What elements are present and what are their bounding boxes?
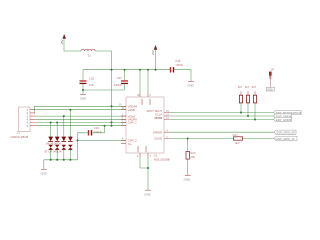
ground GND6 bbox=[184, 176, 191, 182]
svg-text:GND: GND bbox=[144, 146, 148, 152]
gnd rail under diodes bbox=[44, 159, 78, 161]
ground GND5 flag bbox=[266, 88, 274, 92]
svg-text:VDD: VDD bbox=[148, 99, 152, 105]
svg-text:4k7: 4k7 bbox=[238, 85, 243, 89]
wire rail to GND3 bbox=[43, 160, 45, 169]
svg-text:1u: 1u bbox=[88, 53, 92, 57]
junction rail/C27 bbox=[124, 69, 126, 71]
svg-text:C25: C25 bbox=[89, 76, 95, 80]
wire inductor to corner and down bbox=[95, 51, 112, 106]
capacitor C27 100nF bbox=[114, 70, 128, 90]
svg-text:GND: GND bbox=[41, 172, 47, 176]
wire p6 to IC bbox=[35, 125, 126, 127]
gnd wire from C27 bottom to C25 bottom bbox=[83, 90, 125, 94]
wire SCLK to flag2 bbox=[169, 115, 274, 117]
+5V rail wire y=69.7 bbox=[83, 69, 170, 71]
svg-text:AD51/2618B: AD51/2618B bbox=[154, 157, 170, 161]
ground GND1 bbox=[80, 95, 86, 101]
resistor R2 pull-up bbox=[238, 85, 243, 112]
wires rail to IC top pins bbox=[139, 70, 141, 93]
svg-text:uAMP: uAMP bbox=[128, 108, 136, 112]
supply +5V symbol P2 bbox=[151, 45, 157, 55]
svg-text:10k: 10k bbox=[190, 155, 195, 159]
svg-text:100nF: 100nF bbox=[114, 83, 122, 87]
svg-text:CLKIN: CLKIN bbox=[154, 137, 162, 141]
net flag ESP_GPIO5 bbox=[274, 117, 292, 121]
svg-text:R17: R17 bbox=[233, 133, 239, 137]
wire p5 to IC bbox=[35, 122, 126, 124]
wire from +5V down and right to inductor bbox=[64, 39, 81, 51]
wire CLKIN to flag5 through R17 bbox=[169, 138, 274, 140]
wire rail up to C23 left plate bbox=[78, 133, 88, 160]
svg-text:ESP_GPIO_09: ESP_GPIO_09 bbox=[277, 131, 296, 135]
capacitor C26 series 100nF bbox=[170, 59, 184, 72]
net flag ESP_GPIO_10 bbox=[274, 136, 297, 140]
svg-text:GND: GND bbox=[80, 97, 86, 101]
wire SPKEN to flag4 bbox=[169, 131, 274, 133]
svg-text:100nF: 100nF bbox=[175, 63, 183, 67]
wire PFDN to flag3 bbox=[169, 119, 274, 121]
svg-text:ESP_GPIO5: ESP_GPIO5 bbox=[276, 118, 292, 122]
wire p4 to IC bbox=[35, 118, 126, 120]
svg-text:4k7: 4k7 bbox=[235, 141, 240, 145]
IC pin stubs right bbox=[164, 113, 169, 139]
resistor R4 pull-up bbox=[252, 85, 257, 119]
IC pin stubs left bbox=[121, 106, 126, 143]
testpoint JP1 bbox=[269, 68, 274, 79]
net flag ESP_GPIO_09 bbox=[274, 130, 296, 134]
resistor R17 series bbox=[233, 133, 243, 145]
svg-text:uSMUS-P8UB: uSMUS-P8UB bbox=[10, 135, 28, 139]
svg-text:GND: GND bbox=[144, 192, 150, 196]
svg-text:C27: C27 bbox=[117, 76, 123, 80]
svg-text:VDD: VDD bbox=[140, 99, 144, 105]
svg-text:J1: J1 bbox=[17, 131, 20, 135]
wires diodes to gnd rail bbox=[51, 150, 71, 160]
svg-text:100nF: 100nF bbox=[94, 130, 102, 134]
svg-text:CAP_1: CAP_1 bbox=[128, 121, 137, 125]
TVS diode array row2 (bidirectional pairs) bbox=[44, 145, 73, 154]
ground GND3 bbox=[41, 169, 47, 175]
ground GND4 bbox=[144, 190, 151, 196]
IC bottom gnd wires bbox=[140, 158, 148, 190]
svg-text:SPKEN: SPKEN bbox=[153, 130, 162, 134]
svg-text:4k7: 4k7 bbox=[252, 85, 257, 89]
svg-text:GND: GND bbox=[267, 88, 273, 91]
svg-text:GND: GND bbox=[187, 84, 193, 88]
svg-text:GND: GND bbox=[136, 146, 140, 152]
net flag ESP_MTDO/GPIO15 bbox=[274, 110, 302, 114]
resistor R3 pull-up bbox=[245, 85, 250, 116]
op IC U1 box bbox=[126, 97, 170, 161]
svg-text:+5V: +5V bbox=[60, 40, 64, 45]
capacitor C23 100nF bypass bbox=[88, 126, 102, 135]
diode column wires bbox=[50, 123, 52, 137]
supply +5V symbol P1 bbox=[60, 34, 66, 44]
net flag ESP_GPIO4 bbox=[274, 114, 292, 118]
wire C23 right plate up to p6 row bbox=[93, 126, 105, 133]
wire p2 up to VDD row bbox=[35, 106, 127, 113]
connector J1 bbox=[10, 107, 30, 139]
wire p1 to IC bbox=[35, 109, 126, 111]
resistor R24 to gnd bbox=[186, 139, 196, 176]
svg-text:+5V: +5V bbox=[151, 50, 155, 55]
TVS diode array D1..D4 row1 bbox=[48, 137, 73, 142]
svg-text:1uF: 1uF bbox=[89, 83, 94, 87]
wire C23 net to IC CAP_2 pin bbox=[78, 139, 127, 141]
svg-text:GND: GND bbox=[184, 178, 190, 182]
capacitor C25 1uF bbox=[80, 70, 95, 90]
IC pin stubs top bbox=[140, 93, 148, 97]
junction rail/inductor bbox=[111, 69, 113, 71]
wire SPKOUT to flag1 bbox=[169, 112, 274, 114]
svg-text:JP: JP bbox=[271, 68, 274, 72]
svg-text:ESP_GPIO_10: ESP_GPIO_10 bbox=[277, 137, 296, 141]
wire p3 to IC bbox=[35, 115, 126, 117]
svg-text:Ca: Ca bbox=[128, 142, 132, 146]
svg-text:4k7: 4k7 bbox=[245, 85, 250, 89]
wire JP1 to GND5 bbox=[269, 79, 271, 88]
5V feed vertical bbox=[111, 106, 113, 125]
wire +5V P2 down to rail bbox=[155, 50, 157, 70]
IC pin stubs bottom bbox=[140, 153, 148, 158]
connector pin stubs bbox=[30, 110, 35, 126]
svg-text:ST D4 040UA: ST D4 040UA bbox=[44, 150, 61, 154]
ground GND2 bbox=[187, 82, 194, 88]
svg-text:PFDN: PFDN bbox=[155, 116, 163, 120]
inductor L1 bbox=[81, 49, 95, 57]
wire C26 to GND2 bbox=[175, 70, 192, 82]
junction rail/P2 bbox=[155, 69, 157, 71]
